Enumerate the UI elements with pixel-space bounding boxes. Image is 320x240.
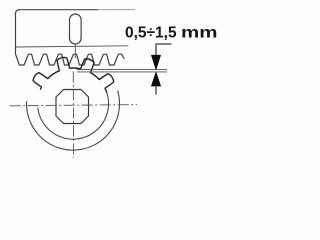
gear vertical centerline: [72, 72, 74, 159]
rack rounded top-left corner: [16, 10, 20, 14]
lower arrowhead: [151, 72, 160, 86]
leader horizontal under text: [156, 43, 172, 45]
clearance lower line: [77, 71, 167, 73]
leader vertical line: [155, 44, 157, 59]
rack top edge: [20, 9, 99, 11]
gear outer (tip) arc: [27, 91, 120, 150]
slot (stadium hole) in rack: [70, 14, 82, 44]
rack body outline (top edge, rounded corner, left edge, teeth): [16, 10, 135, 65]
rack left edge and teeth: [16, 13, 125, 65]
gear horizontal centerline: [10, 105, 137, 106]
gear hub octagonal hole: [56, 90, 89, 124]
slot centerline tick: [74, 45, 76, 58]
svg-text:mm: mm: [181, 25, 218, 42]
rack root line: [16, 46, 129, 47]
gear inner (root) arc: [38, 90, 109, 139]
clearance upper line: [77, 69, 167, 71]
svg-text:0,5÷1,5: 0,5÷1,5: [125, 25, 177, 42]
dimension tail below: [155, 84, 157, 95]
gear teeth: [33, 57, 114, 92]
upper arrowhead: [151, 55, 160, 69]
